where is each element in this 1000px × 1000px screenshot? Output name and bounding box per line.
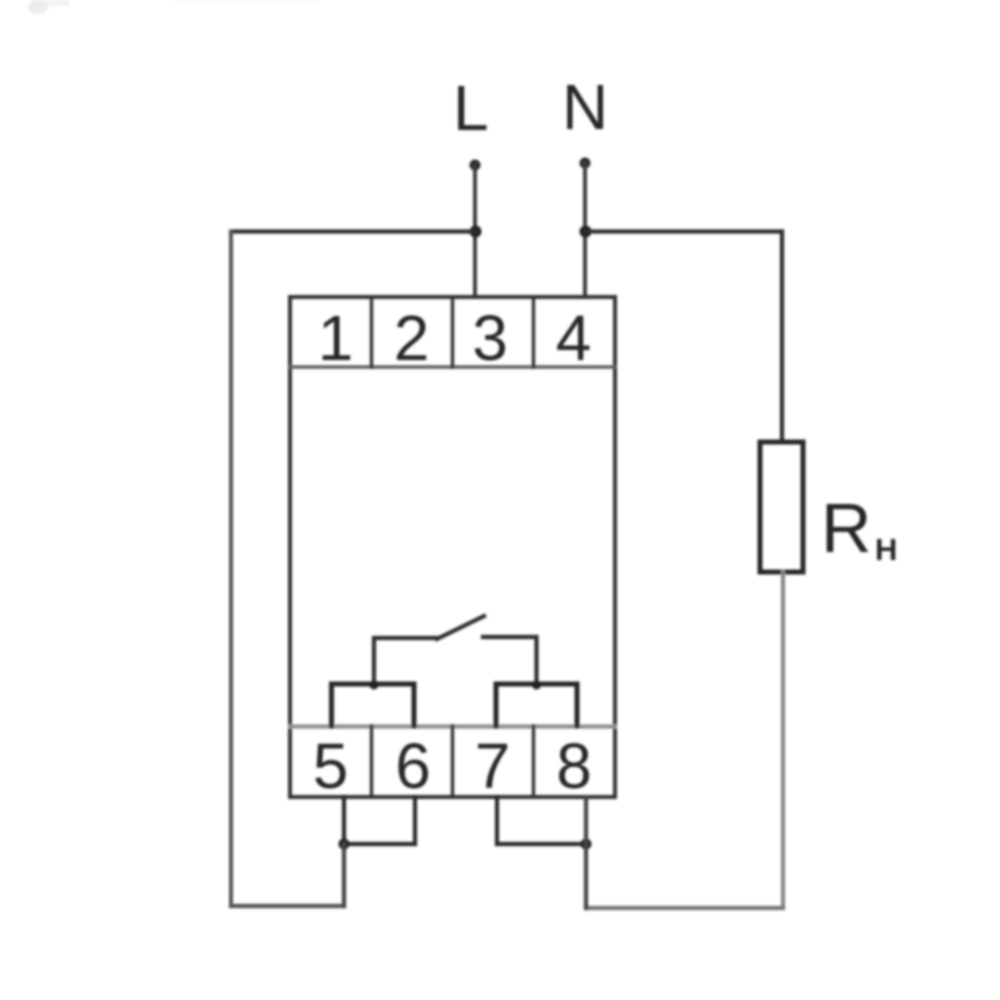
node switch pole junction dot (370, 681, 379, 690)
terminal strip 5-8 top line (290, 724, 615, 728)
svg-text:4: 4 (556, 302, 592, 374)
svg-text:7: 7 (475, 730, 511, 802)
switch S1 right lead (483, 637, 537, 684)
wire joining 5 and 6 (344, 842, 415, 846)
bridge terminals 7-8 to switch contact (496, 684, 577, 726)
wire joining 7 and 8 (497, 842, 586, 846)
node L junction dot (470, 226, 482, 238)
wire right frame top vertical (780, 232, 784, 443)
resistor RH body (760, 442, 803, 572)
wire right frame bottom vertical (781, 572, 785, 908)
node 5-6 junction dot (339, 839, 350, 850)
node 7-8 junction dot (581, 839, 592, 850)
svg-text:2: 2 (394, 302, 430, 374)
wire terminal 6 down (413, 797, 417, 844)
wire terminal 7 down (495, 797, 499, 844)
svg-text:6: 6 (395, 730, 431, 802)
wire L vertical (473, 165, 477, 297)
module body outline (290, 297, 615, 797)
terminal 1-2 divider (370, 297, 373, 367)
switch S1 left lead (374, 638, 437, 684)
bridge terminals 5-6 to switch pole (332, 684, 415, 726)
wire N junction to right frame (585, 229, 782, 233)
node N junction dot (580, 226, 592, 238)
wire junction 5-6 to bottom left (342, 844, 346, 906)
svg-text:R: R (821, 489, 872, 567)
svg-text:H: H (875, 532, 897, 567)
terminal strip 1-4 bottom line (290, 365, 615, 368)
wire terminal 8 down to bottom right (584, 797, 588, 908)
wire left frame vertical (229, 232, 233, 907)
svg-text:3: 3 (472, 302, 508, 374)
terminal 2-3 divider (451, 297, 454, 367)
svg-text:8: 8 (556, 730, 592, 802)
wire right frame bottom horizontal (586, 906, 783, 910)
node L terminal dot (470, 160, 481, 171)
svg-text:L: L (453, 72, 489, 144)
wire L junction to left frame (231, 229, 475, 233)
switch S1 blade (437, 616, 484, 639)
svg-text:5: 5 (313, 730, 349, 802)
node N terminal dot (580, 158, 591, 169)
wire terminal 5 down (342, 797, 346, 844)
terminal 6-7 divider (451, 726, 454, 797)
terminal 5-6 divider (370, 726, 373, 797)
svg-text:N: N (562, 71, 608, 143)
terminal 7-8 divider (532, 726, 535, 797)
node switch contact junction dot (532, 681, 541, 690)
decorative faint smudge top-left (not labelled as component) (28, 0, 320, 14)
svg-text:1: 1 (318, 302, 354, 374)
wire left frame bottom horizontal (231, 904, 344, 908)
wire N vertical (583, 163, 587, 297)
terminal 3-4 divider (532, 297, 535, 367)
